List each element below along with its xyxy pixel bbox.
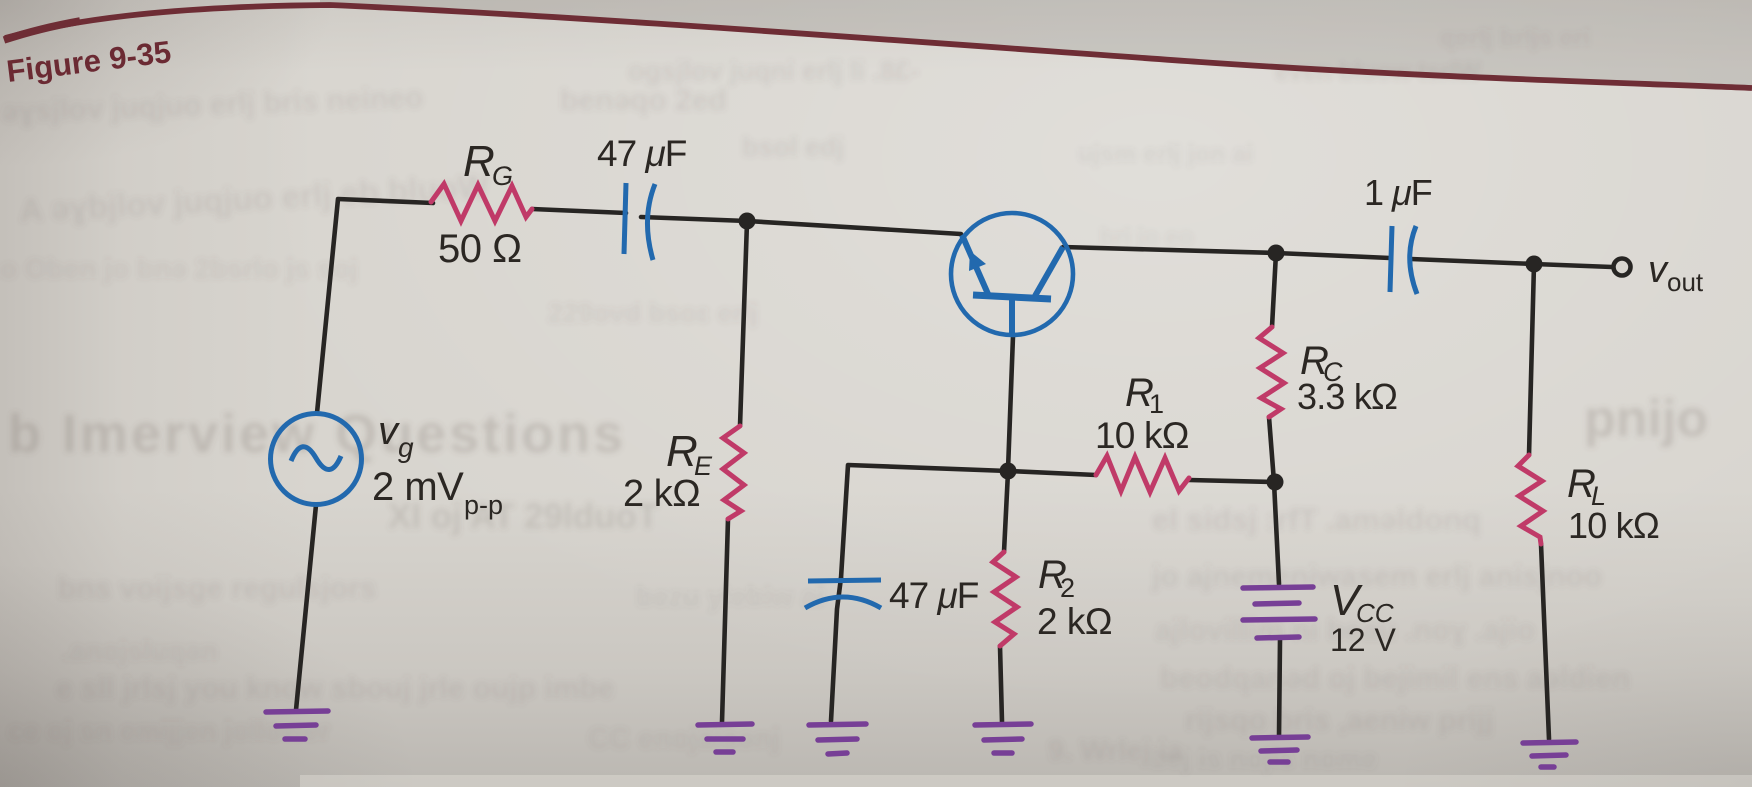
svg-text:Figure 9-35: Figure 9-35 [5, 34, 173, 89]
svg-text:ogsjlov juqni erlj li .8£-: ogsjlov juqni erlj li .8£- [628, 56, 919, 86]
svg-text:p-p: p-p [464, 490, 503, 520]
svg-text:A əɣbjlov juqjuo erlj eb bluoW: A əɣbjlov juqjuo erlj eb bluoW [18, 167, 490, 229]
svg-text:out: out [1667, 267, 1704, 297]
svg-text:v: v [1648, 249, 1669, 291]
svg-text:g: g [398, 432, 414, 463]
svg-text:bej is nojis nome: bej is nojis nome [1150, 743, 1377, 774]
svg-text:beodqanəd oj bejimil ens aəldi: beodqanəd oj bejimil ens aəldien [1160, 662, 1630, 695]
svg-text:3.3 kΩ: 3.3 kΩ [1297, 376, 1397, 417]
svg-text:pnijo: pnijo [1584, 390, 1708, 448]
svg-text:o Oben jo bnə 2bsrlo js soj: o Oben jo bnə 2bsrlo js soj [0, 253, 358, 284]
svg-text:v: v [378, 409, 400, 453]
svg-text:CC enojaiaənj: CC enojaiaənj [588, 723, 780, 755]
svg-text:jo ajnemeniwasem erlj anisjnoo: jo ajnemeniwasem erlj anisjnoo [1151, 560, 1602, 593]
svg-text:ujsm erlj jon ai: ujsm erlj jon ai [1078, 140, 1253, 168]
svg-text:R: R [463, 137, 495, 186]
svg-text:R: R [666, 427, 698, 476]
svg-text:10 kΩ: 10 kΩ [1568, 505, 1659, 546]
svg-text:47 μF: 47 μF [889, 575, 979, 616]
svg-text:.anojsluqən: .anojsluqən [62, 635, 218, 666]
svg-text:ce oj sn emijjen jollower: ce oj sn emijjen jollower [8, 715, 330, 746]
svg-text:47 μF: 47 μF [597, 133, 687, 174]
svg-text:G: G [492, 161, 513, 191]
svg-text:9. Wrlej ia: 9. Wrlej ia [1048, 735, 1184, 767]
svg-text:2: 2 [1060, 573, 1075, 603]
svg-text:2 kΩ: 2 kΩ [1037, 601, 1112, 642]
svg-text:1 μF: 1 μF [1364, 172, 1432, 213]
svg-text:2 mV: 2 mV [372, 465, 464, 509]
svg-text:rijsqo bris ,aeniw prijj: rijsqo bris ,aeniw prijj [1185, 704, 1493, 737]
svg-text:50 Ω: 50 Ω [438, 227, 522, 271]
svg-text:2 kΩ: 2 kΩ [623, 473, 700, 515]
svg-text:əɣsjlov juqjuo erlj bris neine: əɣsjlov juqjuo erlj bris neineo [1, 81, 424, 129]
svg-text:229ovd bsoɛ erlj: 229ovd bsoɛ erlj [548, 298, 758, 328]
svg-text:el sidsj :rfT .aməldonq: el sidsj :rfT .aməldonq [1152, 502, 1481, 537]
svg-text:bezu ylebiw ai: bezu ylebiw ai [636, 581, 824, 612]
svg-text:bsol edj: bsol edj [742, 132, 844, 162]
svg-text:bns voijsge regulsjors: bns voijsge regulsjors [58, 572, 376, 605]
svg-text:10 kΩ: 10 kΩ [1095, 415, 1189, 456]
svg-text:benəqo 2ed: benəqo 2ed [560, 84, 727, 117]
svg-text:e sll jrlsj you know sbouj jrl: e sll jrlsj you know sbouj jrle oujp imb… [56, 672, 614, 705]
svg-text:12 V: 12 V [1330, 622, 1396, 658]
